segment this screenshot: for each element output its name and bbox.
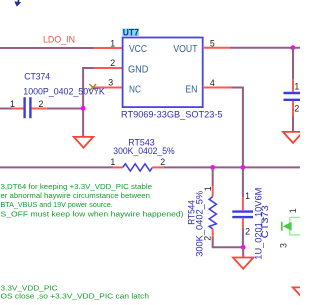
resistor RT544 vertical: [209, 167, 243, 247]
no-connect X on NC pin: [89, 84, 96, 91]
refdes highlight UT7: [122, 29, 139, 37]
svg-text:300K_0402_5%: 300K_0402_5%: [113, 146, 174, 156]
ground symbol bottom-right cut: [293, 287, 314, 298]
wire EN to enable rail: [232, 88, 243, 168]
svg-text:3: 3: [279, 243, 289, 248]
svg-text:er abnormal haywire circumstan: er abnormal haywire circumstance between: [1, 191, 150, 200]
svg-text:2: 2: [38, 99, 43, 109]
pin 3 stub NC: [93, 87, 123, 89]
svg-text:NC: NC: [129, 84, 141, 95]
capacitor CT373: [232, 167, 253, 247]
ground symbol left: [74, 137, 93, 148]
pin 4 stub EN: [203, 87, 232, 89]
junction dot rail-CT373: [241, 165, 246, 170]
wire VOUT rail: [230, 47, 300, 49]
resistor RT543: [0, 164, 300, 171]
capacitor CT374: [0, 97, 84, 118]
pin 1 stub U T7 VCC: [93, 47, 122, 49]
wire vertical from GND pin down to ground: [82, 67, 84, 137]
diode D green component right edge: [282, 217, 304, 235]
wire pin2 horizontal: [82, 67, 93, 69]
svg-text:CT373: CT373: [260, 205, 270, 238]
pin 5 stub VOUT: [203, 47, 230, 49]
svg-text:VCC: VCC: [129, 44, 147, 55]
green note block upper: [1, 182, 184, 218]
op-amp/regulator U T7 box: [123, 38, 203, 108]
junction dot bottom: [241, 245, 246, 250]
svg-text:1: 1: [110, 157, 115, 167]
svg-text:GND: GND: [128, 64, 148, 75]
svg-text:300K_0402_5%: 300K_0402_5%: [195, 191, 205, 257]
svg-text:1: 1: [288, 208, 298, 213]
junction dot VOUT: [291, 45, 296, 50]
svg-text:1000P_0402_50V7K: 1000P_0402_50V7K: [23, 87, 105, 97]
svg-text:OS close ,so +3.3V_VDD_PIC can: OS close ,so +3.3V_VDD_PIC can latch: [1, 291, 150, 300]
svg-text:2: 2: [160, 157, 165, 167]
svg-text:LDO_IN: LDO_IN: [43, 34, 75, 44]
junction dot left: [81, 106, 86, 111]
pin 2 stub GND: [94, 67, 123, 69]
svg-text:1: 1: [110, 38, 115, 48]
svg-text:1: 1: [294, 82, 299, 92]
svg-text:3,DT64 for keeping +3.3V_VDD_P: 3,DT64 for keeping +3.3V_VDD_PIC stable: [1, 182, 153, 191]
wire dot to ground mid: [242, 247, 244, 257]
wire LDO_IN horizontal: [0, 47, 93, 49]
svg-text:S_OFF must keep low when haywi: S_OFF must keep low when haywire happene…: [1, 209, 184, 218]
svg-text:BTA_VBUS and 19V power source.: BTA_VBUS and 19V power source.: [1, 200, 113, 209]
junction dot rail-RT544: [210, 165, 215, 170]
svg-text:1: 1: [245, 191, 250, 201]
svg-text:3: 3: [108, 78, 113, 88]
svg-text:CT374: CT374: [24, 72, 50, 82]
svg-text:EN: EN: [185, 84, 197, 95]
svg-text:VOUT: VOUT: [173, 44, 197, 55]
ground symbol right: [283, 132, 303, 143]
svg-text:2: 2: [110, 58, 115, 68]
svg-text:2: 2: [245, 227, 250, 237]
ground symbol mid: [233, 258, 253, 269]
capacitor right (output cap): [284, 47, 303, 132]
svg-text:1: 1: [10, 99, 15, 109]
svg-text:UT7: UT7: [123, 27, 139, 37]
svg-text:RT9069-33GB_SOT23-5: RT9069-33GB_SOT23-5: [121, 110, 223, 120]
svg-text:2: 2: [294, 104, 299, 114]
svg-text:1: 1: [203, 186, 213, 191]
green note block lower: [1, 283, 150, 300]
svg-text:2: 2: [202, 236, 212, 241]
cut-off rotated text fragment top-left: [14, 0, 21, 7]
